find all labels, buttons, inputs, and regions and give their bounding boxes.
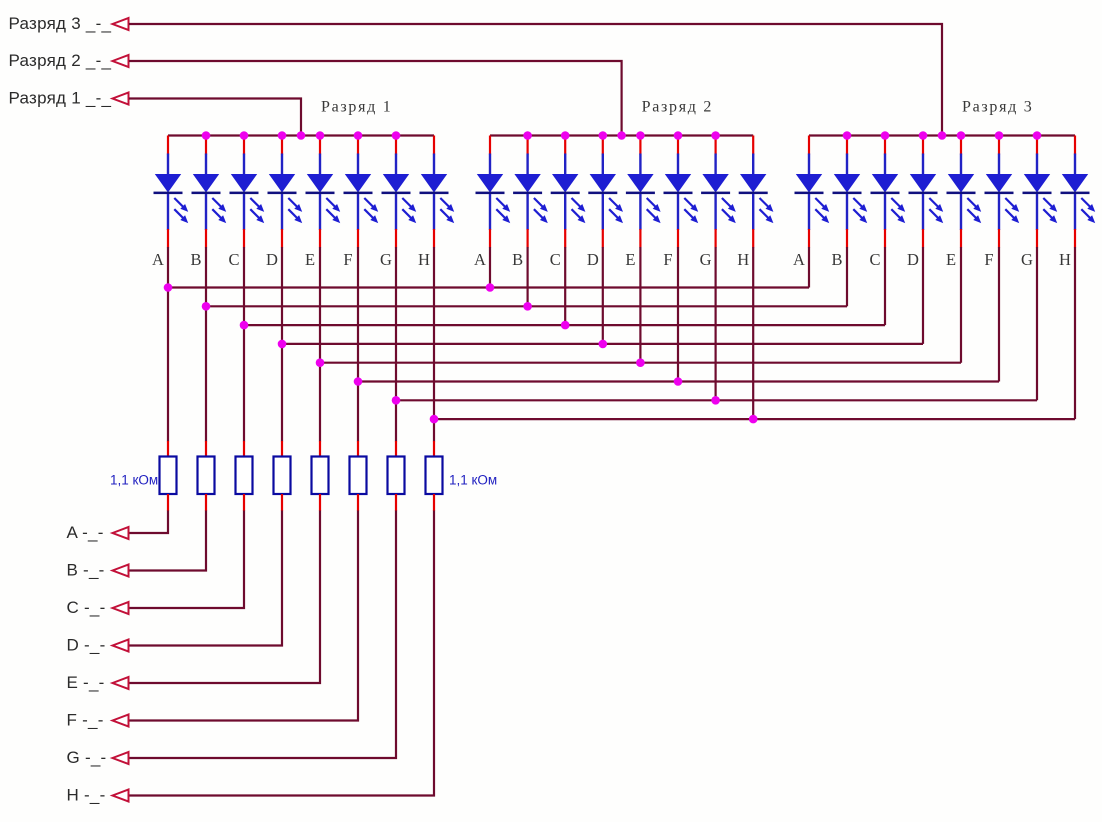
svg-text:H -_-: H -_- xyxy=(67,786,106,805)
resistor R6 1,1 кОм xyxy=(350,457,367,495)
junction: bus Разряд 3 @ F xyxy=(995,131,1004,140)
junction: bus Разряд 3 feed xyxy=(938,131,947,140)
LED D1C xyxy=(230,136,265,248)
LED D1H xyxy=(420,136,455,248)
junction: bus Разряд 1 feed xyxy=(297,131,306,140)
wire: cathode pin lead (red) xyxy=(526,229,528,248)
wire: resistor top pin lead (red) net A xyxy=(167,441,169,457)
wire: net F to port xyxy=(129,511,358,721)
LED cathode bar xyxy=(985,192,1014,195)
port arrow A xyxy=(113,527,129,539)
LED anode triangle xyxy=(702,174,728,193)
wire: cathode pin lead (red) xyxy=(602,229,604,248)
wire: anode pin lead (red) xyxy=(752,136,754,155)
wire: anode lead (blue) xyxy=(602,154,604,176)
LED emission arrow xyxy=(174,198,185,209)
svg-text:C -_-: C -_- xyxy=(67,598,106,617)
wire: cathode lead (blue) xyxy=(998,194,1000,230)
wire: anode lead (blue) xyxy=(319,154,321,176)
wire: net C matrix row xyxy=(244,324,885,326)
wire: cathode lead (blue) xyxy=(395,194,397,230)
LED emission arrow xyxy=(440,209,451,220)
wire: resistor top pin lead (red) net E xyxy=(319,441,321,457)
wire: cathode lead (blue) xyxy=(243,194,245,230)
wire: anode lead (blue) xyxy=(205,154,207,176)
wire: net G to port xyxy=(129,511,396,759)
LED emission arrow xyxy=(722,198,733,209)
wire: anode lead (blue) xyxy=(526,154,528,176)
LED anode triangle xyxy=(740,174,766,193)
LED cathode bar xyxy=(909,192,938,195)
LED emission arrow xyxy=(572,198,583,209)
svg-text:C: C xyxy=(869,250,880,269)
svg-text:Разряд 3 _-_: Разряд 3 _-_ xyxy=(9,14,112,33)
LED D1A xyxy=(154,136,189,248)
junction: net D @ digit2 xyxy=(599,340,608,349)
svg-text:D: D xyxy=(266,250,278,269)
LED emission arrow xyxy=(1043,209,1054,220)
junction: net H @ digit2 xyxy=(749,415,758,424)
LED cathode bar xyxy=(795,192,824,195)
wire: net C digit1 column xyxy=(243,247,245,442)
wire: cathode lead (blue) xyxy=(205,194,207,230)
svg-text:B -_-: B -_- xyxy=(67,561,105,580)
svg-text:D -_-: D -_- xyxy=(67,636,106,655)
svg-text:E: E xyxy=(305,250,315,269)
LED emission arrow xyxy=(684,198,695,209)
wire: cathode lead (blue) xyxy=(281,194,283,230)
wire: cathode lead (blue) xyxy=(639,194,641,230)
wire: net D digit1 column xyxy=(281,247,283,442)
junction: net C @ digit1 xyxy=(240,321,249,330)
svg-text:A: A xyxy=(793,250,805,269)
wire: cathode lead (blue) xyxy=(960,194,962,230)
wire: anode lead (blue) xyxy=(677,154,679,176)
LED D3E xyxy=(947,136,982,248)
wire: net Разряд 2 xyxy=(129,61,622,136)
LED cathode bar xyxy=(551,192,580,195)
wire: net B digit3 column xyxy=(846,247,848,306)
resistor R2 1,1 кОм xyxy=(198,457,215,495)
junction: net B @ digit2 xyxy=(523,302,532,311)
LED emission arrow xyxy=(891,209,902,220)
junction: bus Разряд 3 @ B xyxy=(843,131,852,140)
LED cathode bar xyxy=(1023,192,1052,195)
LED emission arrow xyxy=(722,209,733,220)
LED emission arrow xyxy=(364,198,375,209)
port arrow Разряд 2 xyxy=(113,55,129,67)
wire: cathode pin lead (red) xyxy=(489,229,491,248)
wire: net Разряд 1 xyxy=(129,99,301,136)
wire: anode lead (blue) xyxy=(714,154,716,176)
LED emission arrow xyxy=(1081,209,1092,220)
wire: anode lead (blue) xyxy=(808,154,810,176)
LED cathode bar xyxy=(871,192,900,195)
wire: net H to port xyxy=(129,511,434,796)
svg-text:F -_-: F -_- xyxy=(67,711,104,730)
LED emission arrow xyxy=(174,209,185,220)
wire: net D matrix row xyxy=(282,343,923,345)
wire: net E digit2 column xyxy=(639,247,641,364)
wire: net F matrix row xyxy=(358,380,999,382)
wire: anode pin lead (red) xyxy=(1074,136,1076,155)
wire: net H digit2 column xyxy=(752,247,754,420)
LED cathode bar xyxy=(230,192,259,195)
wire: anode lead (blue) xyxy=(281,154,283,176)
junction: net G @ digit1 xyxy=(392,396,401,405)
junction: net A @ digit1 xyxy=(164,283,173,292)
LED emission arrow xyxy=(853,209,864,220)
wire: anode bus Разряд 2 xyxy=(490,134,753,136)
LED emission arrow xyxy=(684,209,695,220)
wire: resistor bottom pin lead (red) net C xyxy=(243,494,245,511)
LED anode triangle xyxy=(421,174,447,193)
LED emission arrow xyxy=(647,198,658,209)
port arrow H xyxy=(113,790,129,802)
wire: net B digit2 column xyxy=(526,247,528,307)
wire: resistor bottom pin lead (red) net E xyxy=(319,494,321,511)
wire: anode lead (blue) xyxy=(357,154,359,176)
LED cathode bar xyxy=(1061,192,1090,195)
wire: cathode pin lead (red) xyxy=(319,229,321,248)
svg-text:Разряд 1 _-_: Разряд 1 _-_ xyxy=(9,89,112,108)
LED anode triangle xyxy=(834,174,860,193)
wire: anode lead (blue) xyxy=(1036,154,1038,176)
LED anode triangle xyxy=(514,174,540,193)
LED emission arrow xyxy=(534,198,545,209)
LED emission arrow xyxy=(440,198,451,209)
wire: cathode pin lead (red) xyxy=(960,229,962,248)
LED cathode bar xyxy=(626,192,655,195)
svg-text:B: B xyxy=(512,250,523,269)
LED emission arrow xyxy=(1005,209,1016,220)
wire: resistor top pin lead (red) net G xyxy=(395,441,397,457)
LED cathode bar xyxy=(306,192,335,195)
wire: net A matrix row xyxy=(168,286,809,288)
junction: bus Разряд 2 @ F xyxy=(674,131,683,140)
LED anode triangle xyxy=(345,174,371,193)
port arrow B xyxy=(113,565,129,577)
wire: net F digit2 column xyxy=(677,247,679,383)
wire: net E digit3 column xyxy=(960,247,962,363)
wire: anode bus Разряд 1 xyxy=(168,134,434,136)
wire: anode pin lead (red) xyxy=(243,136,245,155)
LED emission arrow xyxy=(609,198,620,209)
LED emission arrow xyxy=(647,209,658,220)
resistor R3 1,1 кОм xyxy=(236,457,253,495)
LED anode triangle xyxy=(552,174,578,193)
svg-text:D: D xyxy=(907,250,919,269)
wire: anode lead (blue) xyxy=(960,154,962,176)
wire: cathode lead (blue) xyxy=(884,194,886,230)
port arrow F xyxy=(113,715,129,727)
svg-text:C: C xyxy=(228,250,239,269)
wire: resistor top pin lead (red) net B xyxy=(205,441,207,457)
port arrow D xyxy=(113,640,129,652)
svg-text:B: B xyxy=(831,250,842,269)
junction: bus Разряд 1 @ G xyxy=(392,131,401,140)
wire: anode pin lead (red) xyxy=(960,136,962,155)
wire: cathode lead (blue) xyxy=(357,194,359,230)
resistor R5 1,1 кОм xyxy=(312,457,329,495)
LED emission arrow xyxy=(534,209,545,220)
LED D2C xyxy=(551,136,586,248)
wire: net E matrix row xyxy=(320,362,961,364)
LED emission arrow xyxy=(760,198,771,209)
LED cathode bar xyxy=(701,192,730,195)
wire: cathode lead (blue) xyxy=(677,194,679,230)
LED anode triangle xyxy=(477,174,503,193)
wire: resistor bottom pin lead (red) net H xyxy=(433,494,435,511)
svg-text:F: F xyxy=(663,250,672,269)
LED D2E xyxy=(626,136,661,248)
wire: anode pin lead (red) xyxy=(884,136,886,155)
wire: cathode pin lead (red) xyxy=(205,229,207,248)
wire: anode pin lead (red) xyxy=(357,136,359,155)
svg-text:G: G xyxy=(1021,250,1033,269)
wire: cathode lead (blue) xyxy=(526,194,528,230)
wire: net F digit1 column xyxy=(357,247,359,442)
wire: anode pin lead (red) xyxy=(526,136,528,155)
resistor R7 1,1 кОм xyxy=(388,457,405,495)
LED D2B xyxy=(513,136,548,248)
svg-text:Разряд 3: Разряд 3 xyxy=(962,99,1033,116)
LED D2F xyxy=(664,136,699,248)
wire: cathode pin lead (red) xyxy=(884,229,886,248)
junction: net F @ digit1 xyxy=(354,377,363,386)
svg-text:G: G xyxy=(700,250,712,269)
LED emission arrow xyxy=(609,209,620,220)
wire: cathode pin lead (red) xyxy=(846,229,848,248)
LED D3H xyxy=(1061,136,1096,248)
junction: bus Разряд 3 @ G xyxy=(1033,131,1042,140)
LED emission arrow xyxy=(572,209,583,220)
LED emission arrow xyxy=(402,209,413,220)
port arrow E xyxy=(113,677,129,689)
port arrow Разряд 1 xyxy=(113,93,129,105)
wire: anode pin lead (red) xyxy=(319,136,321,155)
LED D1F xyxy=(344,136,379,248)
junction: bus Разряд 2 @ B xyxy=(523,131,532,140)
junction: bus Разряд 1 @ C xyxy=(240,131,249,140)
wire: anode pin lead (red) xyxy=(564,136,566,155)
LED cathode bar xyxy=(664,192,693,195)
svg-text:A: A xyxy=(152,250,164,269)
junction: bus Разряд 2 feed xyxy=(617,131,626,140)
wire: cathode lead (blue) xyxy=(846,194,848,230)
wire: cathode pin lead (red) xyxy=(998,229,1000,248)
LED anode triangle xyxy=(986,174,1012,193)
LED emission arrow xyxy=(496,209,507,220)
svg-text:1,1 кОм: 1,1 кОм xyxy=(110,473,158,488)
svg-text:F: F xyxy=(343,250,352,269)
LED emission arrow xyxy=(1043,198,1054,209)
wire: cathode pin lead (red) xyxy=(677,229,679,248)
wire: cathode lead (blue) xyxy=(922,194,924,230)
wire: cathode pin lead (red) xyxy=(808,229,810,248)
LED cathode bar xyxy=(833,192,862,195)
LED emission arrow xyxy=(402,198,413,209)
wire: cathode lead (blue) xyxy=(167,194,169,230)
LED emission arrow xyxy=(288,198,299,209)
wire: cathode lead (blue) xyxy=(602,194,604,230)
port arrow Разряд 3 xyxy=(113,18,129,30)
LED cathode bar xyxy=(588,192,617,195)
LED D1B xyxy=(192,136,227,248)
LED cathode bar xyxy=(382,192,411,195)
wire: net E to port xyxy=(129,511,320,684)
wire: resistor bottom pin lead (red) net A xyxy=(167,494,169,511)
svg-text:H: H xyxy=(737,250,749,269)
wire: cathode pin lead (red) xyxy=(564,229,566,248)
wire: cathode lead (blue) xyxy=(752,194,754,230)
wire: anode lead (blue) xyxy=(998,154,1000,176)
wire: cathode lead (blue) xyxy=(1074,194,1076,230)
wire: cathode pin lead (red) xyxy=(433,229,435,248)
wire: anode lead (blue) xyxy=(395,154,397,176)
junction: bus Разряд 2 @ D xyxy=(599,131,608,140)
wire: net G matrix row xyxy=(396,399,1037,401)
junction: net D @ digit1 xyxy=(278,340,287,349)
wire: cathode lead (blue) xyxy=(319,194,321,230)
wire: cathode pin lead (red) xyxy=(357,229,359,248)
wire: cathode pin lead (red) xyxy=(1036,229,1038,248)
LED emission arrow xyxy=(212,198,223,209)
LED emission arrow xyxy=(929,209,940,220)
wire: resistor bottom pin lead (red) net D xyxy=(281,494,283,511)
LED emission arrow xyxy=(496,198,507,209)
LED D2D xyxy=(588,136,623,248)
wire: net G digit1 column xyxy=(395,247,397,442)
wire: cathode pin lead (red) xyxy=(243,229,245,248)
LED anode triangle xyxy=(665,174,691,193)
wire: net H digit3 column xyxy=(1074,247,1076,419)
wire: cathode pin lead (red) xyxy=(167,229,169,248)
svg-text:E: E xyxy=(946,250,956,269)
LED anode triangle xyxy=(307,174,333,193)
wire: anode lead (blue) xyxy=(639,154,641,176)
junction: bus Разряд 2 @ C xyxy=(561,131,570,140)
svg-text:F: F xyxy=(984,250,993,269)
junction: bus Разряд 1 @ B xyxy=(202,131,211,140)
wire: net C digit2 column xyxy=(564,247,566,326)
wire: anode pin lead (red) xyxy=(998,136,1000,155)
wire: net C digit3 column xyxy=(884,247,886,325)
port arrow G xyxy=(113,752,129,764)
wire: net H digit1 column xyxy=(433,247,435,442)
junction: net E @ digit1 xyxy=(316,358,325,367)
wire: net C to port xyxy=(129,511,244,609)
svg-text:D: D xyxy=(587,250,599,269)
LED emission arrow xyxy=(1005,198,1016,209)
LED D3B xyxy=(833,136,868,248)
LED D1E xyxy=(306,136,341,248)
wire: net H matrix row xyxy=(434,418,1075,420)
wire: anode pin lead (red) xyxy=(433,136,435,155)
wire: cathode lead (blue) xyxy=(564,194,566,230)
wire: anode pin lead (red) xyxy=(1036,136,1038,155)
wire: net F digit3 column xyxy=(998,247,1000,382)
wire: resistor top pin lead (red) net D xyxy=(281,441,283,457)
wire: anode pin lead (red) xyxy=(677,136,679,155)
LED emission arrow xyxy=(326,198,337,209)
junction: bus Разряд 1 @ D xyxy=(278,131,287,140)
LED anode triangle xyxy=(627,174,653,193)
wire: cathode pin lead (red) xyxy=(714,229,716,248)
wire: anode lead (blue) xyxy=(922,154,924,176)
wire: net A digit3 column xyxy=(808,247,810,288)
LED cathode bar xyxy=(344,192,373,195)
resistor R4 1,1 кОм xyxy=(274,457,291,495)
junction: net F @ digit2 xyxy=(674,377,683,386)
LED D2H xyxy=(739,136,774,248)
wire: cathode pin lead (red) xyxy=(922,229,924,248)
wire: net Разряд 3 xyxy=(129,24,942,136)
LED anode triangle xyxy=(590,174,616,193)
svg-text:A -_-: A -_- xyxy=(67,523,104,542)
LED emission arrow xyxy=(1081,198,1092,209)
LED D3G xyxy=(1023,136,1058,248)
wire: cathode pin lead (red) xyxy=(395,229,397,248)
LED emission arrow xyxy=(288,209,299,220)
wire: cathode lead (blue) xyxy=(433,194,435,230)
wire: cathode lead (blue) xyxy=(489,194,491,230)
wire: cathode pin lead (red) xyxy=(1074,229,1076,248)
LED D3F xyxy=(985,136,1020,248)
wire: cathode pin lead (red) xyxy=(281,229,283,248)
junction: net H @ digit1 xyxy=(430,415,439,424)
LED anode triangle xyxy=(910,174,936,193)
svg-text:Разряд 2: Разряд 2 xyxy=(642,99,713,116)
LED emission arrow xyxy=(212,209,223,220)
LED cathode bar xyxy=(513,192,542,195)
wire: anode pin lead (red) xyxy=(922,136,924,155)
wire: anode pin lead (red) xyxy=(281,136,283,155)
wire: net G digit3 column xyxy=(1036,247,1038,400)
wire: anode pin lead (red) xyxy=(489,136,491,155)
wire: net B digit1 column xyxy=(205,247,207,442)
LED emission arrow xyxy=(364,209,375,220)
wire: anode lead (blue) xyxy=(489,154,491,176)
wire: net A digit2 column xyxy=(489,247,491,289)
LED anode triangle xyxy=(269,174,295,193)
junction: bus Разряд 2 @ G xyxy=(711,131,720,140)
LED anode triangle xyxy=(231,174,257,193)
LED D2G xyxy=(701,136,736,248)
wire: anode pin lead (red) xyxy=(846,136,848,155)
svg-text:H: H xyxy=(1059,250,1071,269)
wire: anode lead (blue) xyxy=(433,154,435,176)
LED emission arrow xyxy=(760,209,771,220)
junction: net G @ digit2 xyxy=(711,396,720,405)
wire: resistor bottom pin lead (red) net F xyxy=(357,494,359,511)
LED emission arrow xyxy=(891,198,902,209)
wire: net D digit2 column xyxy=(602,247,604,345)
wire: anode pin lead (red) xyxy=(167,136,169,155)
wire: net B matrix row xyxy=(206,305,847,307)
junction: bus Разряд 3 @ C xyxy=(881,131,890,140)
wire: cathode pin lead (red) xyxy=(752,229,754,248)
LED cathode bar xyxy=(192,192,221,195)
wire: cathode lead (blue) xyxy=(714,194,716,230)
wire: anode pin lead (red) xyxy=(395,136,397,155)
resistor R8 1,1 кОм xyxy=(426,457,443,495)
port arrow C xyxy=(113,602,129,614)
svg-text:Разряд 1: Разряд 1 xyxy=(321,99,392,116)
LED D3A xyxy=(795,136,830,248)
wire: net D digit3 column xyxy=(922,247,924,344)
LED anode triangle xyxy=(948,174,974,193)
